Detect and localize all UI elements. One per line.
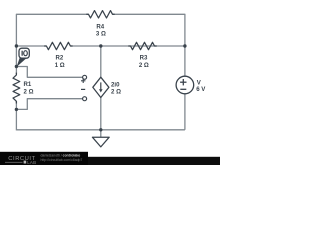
resistor R4 [86,11,114,18]
svg-text:2 Ω: 2 Ω [24,89,34,96]
svg-text:R4: R4 [96,23,104,30]
node D (diamond top on row2) [99,44,102,47]
terminal + (open circle) [83,75,87,79]
wire right below voltage source [184,94,186,130]
node A (R2 junction on left wire) [15,44,18,47]
wire middle branch upper (row2 to diamond) [100,46,102,77]
wire left middle (node A to R1) [15,44,17,74]
wire middle branch lower (diamond to bottom) [100,98,102,130]
svg-text:LAB: LAB [27,160,36,165]
wire left lower (R1 to bottom corner) [15,101,17,130]
current source I1 (diamond, 2i0) [93,77,121,97]
current label I0 (callout) [17,48,30,67]
node F (row2 right junction) [183,44,186,47]
label - [81,88,85,90]
wire bottom [16,129,185,131]
svg-text:2 Ω: 2 Ω [111,89,121,96]
watermark CircuitLab [0,152,220,165]
terminal - (open circle) [83,97,87,101]
svg-text:R2: R2 [56,55,64,62]
svg-text:http://circuitlab.com/c8adp7: http://circuitlab.com/c8adp7 [41,158,83,162]
wire row2 R2 to right wire [70,45,184,47]
wire top from left corner to R4 [16,14,88,46]
wire stub to - terminal [16,99,82,110]
resistor R1 [13,73,20,104]
label + [81,79,85,83]
svg-text:2i0: 2i0 [111,81,120,88]
node E (ground junction) [99,128,102,131]
svg-text:3 Ω: 3 Ω [96,31,106,38]
voltage source V [176,76,206,94]
wire stub to + terminal [16,67,82,78]
node C (bottom stub junction) [15,108,18,111]
resistor R2 [44,42,72,49]
svg-text:6 V: 6 V [196,86,206,93]
wire row2 left lead to R2 [16,45,46,47]
svg-text:1 Ω: 1 Ω [55,62,65,69]
svg-text:R1: R1 [24,81,32,88]
node B (top stub junction) [15,65,18,68]
svg-text:R3: R3 [140,55,148,62]
wire top from R4 to right corner [113,14,185,76]
svg-text:2 Ω: 2 Ω [139,62,149,69]
resistor R3 [128,42,156,49]
ground [92,130,109,147]
